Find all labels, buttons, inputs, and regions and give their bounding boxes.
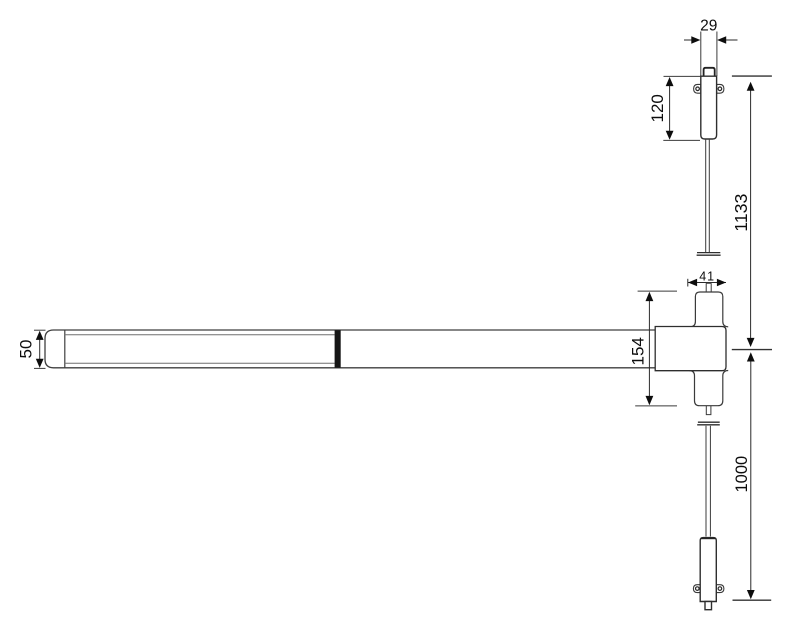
dim 50 top extension line [34, 329, 46, 331]
push bar black band [335, 330, 341, 368]
dim 41 line [688, 282, 726, 284]
top rod foot lower line [697, 254, 721, 256]
bottom rod left line [705, 426, 707, 537]
top latch cap [704, 68, 715, 76]
top rod foot upper line [697, 252, 720, 254]
dim 154 line [648, 294, 650, 404]
svg-text:1133: 1133 [731, 193, 751, 231]
svg-text:41: 41 [699, 270, 715, 284]
rod break upper line [698, 421, 720, 423]
lower rod stub [706, 406, 711, 415]
dim 1133 line [750, 88, 752, 339]
shared mid reference line [732, 349, 772, 351]
lower rod housing [689, 371, 728, 406]
bottom latch top cap line [701, 537, 716, 539]
dim 1133 top reference line [732, 75, 772, 77]
bottom latch body [700, 538, 716, 602]
dim 1000 bottom reference line [733, 599, 772, 601]
dim 29 left leader+arrow [684, 39, 700, 41]
dim 1000 top arrow [747, 352, 755, 361]
dim 120 line [669, 79, 671, 138]
svg-text:50: 50 [17, 340, 36, 359]
rod break lower line [697, 424, 720, 426]
dim 1000 line [750, 361, 752, 594]
dim 50 bottom extension line [34, 367, 46, 369]
dim 29 right extension line [716, 32, 718, 77]
svg-text:120: 120 [648, 94, 667, 122]
top rod (latch to foot) left line [705, 140, 707, 252]
svg-text:29: 29 [700, 18, 717, 35]
bottom latch ear left screw hole [696, 587, 700, 591]
svg-text:1000: 1000 [733, 456, 751, 493]
dim 41 right arrow (points right) [717, 279, 726, 287]
dim 154 top extension line [638, 290, 677, 292]
bottom latch ear right screw hole [718, 587, 722, 591]
dim 154 top arrow [646, 292, 654, 301]
dim 154 bottom arrow [646, 396, 654, 405]
dim 50 bottom arrow [36, 359, 44, 368]
push bar pad inner bottom line [65, 362, 335, 364]
svg-text:154: 154 [629, 337, 648, 365]
dim 50 top arrow [36, 331, 44, 340]
top latch ear right screw hole [718, 87, 722, 91]
bottom latch mounting ear left [693, 585, 700, 593]
dim 50 line [39, 333, 41, 365]
center case [655, 327, 726, 371]
top latch mounting ear right [717, 84, 724, 93]
push bar pad inner top line [65, 334, 335, 336]
upper rod housing [690, 292, 728, 327]
dim 29 left extension line [700, 32, 702, 77]
top rod right line [708, 140, 710, 252]
bottom latch mounting ear right [716, 585, 724, 593]
top latch ear left screw hole [696, 87, 700, 91]
push bar outline [45, 330, 655, 368]
dim 120 top extension line [664, 75, 701, 77]
dim 120 top arrow [666, 77, 674, 86]
top latch body [701, 76, 717, 139]
dim 41 left arrow (points left) [688, 279, 697, 287]
dim 120 bottom arrow [666, 131, 674, 140]
bottom latch bolt [705, 602, 712, 610]
dim 120 bottom extension line [663, 139, 700, 141]
dim 1133 bottom arrow [747, 338, 755, 347]
push bar end-cap divider [64, 330, 66, 368]
upper rod stub into housing [706, 283, 711, 292]
bottom rod right line [709, 426, 711, 537]
dim 29 right leader+arrow [718, 39, 738, 41]
top latch mounting ear left [694, 84, 701, 93]
dim 154 bottom extension line [635, 405, 677, 407]
dim 1000 bottom arrow [747, 590, 755, 599]
dim 41 left tick [687, 279, 689, 287]
dim 1133 top arrow [747, 82, 755, 91]
